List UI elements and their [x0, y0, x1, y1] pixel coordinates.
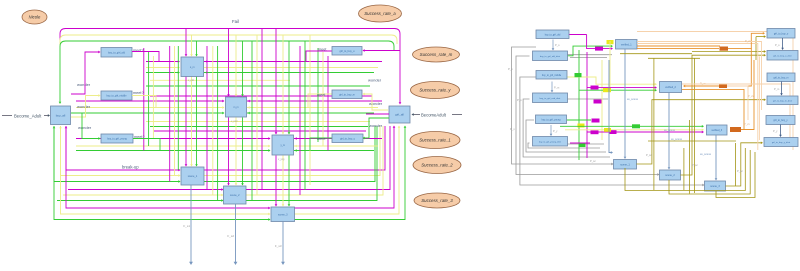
wire magenta col3: [206, 46, 208, 190]
svg-text:P_m: P_m: [774, 87, 779, 91]
block boy_to_girl_old R: [536, 30, 569, 39]
svg-text:girl_to_boy_y_distr: girl_to_boy_y_distr: [772, 141, 791, 144]
block gain orange 2: [719, 84, 727, 89]
wire magenta rowB left: [76, 100, 224, 102]
wire yellow into verified_3: [565, 129, 703, 131]
wire green row3: [54, 182, 270, 220]
node Success_rate_1 ellipse: [410, 132, 460, 149]
svg-text:girl_to_boy_m_distr: girl_to_boy_m_distr: [773, 99, 792, 102]
svg-text:verified_3: verified_3: [711, 129, 722, 132]
wire magenta col6c: [327, 56, 329, 151]
wire gray connector 2: [570, 57, 607, 59]
svg-text:girl_to_boy_y: girl_to_boy_y: [340, 137, 356, 140]
svg-text:Fail: Fail: [232, 19, 239, 24]
wire verified_2 to scene_2: [668, 93, 670, 170]
svg-text:wonder: wonder: [77, 104, 91, 109]
svg-text:break-up: break-up: [122, 165, 139, 170]
wire green colC bottom: [288, 156, 290, 207]
wire yellow col4b: [256, 35, 258, 195]
wire olive loop 5: [669, 150, 750, 194]
wire magenta top bus: [60, 29, 400, 104]
svg-text:boy_to_girl_young: boy_to_girl_young: [107, 138, 127, 141]
wire yellow row3: [61, 176, 271, 215]
wire magenta into g2b_o: [363, 50, 400, 52]
wire pale orange 3: [637, 42, 762, 111]
svg-text:m_m: m_m: [233, 106, 238, 109]
svg-text:wonder: wonder: [369, 101, 383, 106]
wire green rowA left: [146, 72, 179, 74]
wire gray loop 6: [528, 143, 600, 148]
wire yellow row2: [63, 194, 223, 196]
svg-text:girl_to_boy_m: girl_to_boy_m: [773, 76, 788, 79]
wire L1-L2 connector: [552, 40, 554, 51]
wire magenta colB top: [228, 29, 230, 97]
wire magenta colA top: [185, 29, 187, 57]
block gain green 1c: [575, 73, 582, 77]
wire magenta mid row2c: [154, 130, 366, 132]
svg-text:boy_all: boy_all: [56, 113, 66, 117]
wire green colC top: [288, 41, 290, 134]
wire R5-R6 connector: [780, 125, 782, 137]
wire green col4: [251, 41, 253, 200]
wire magenta colC bottom: [275, 156, 277, 207]
wire yellow col6b: [322, 52, 324, 146]
svg-text:v_mid: v_mid: [231, 120, 238, 123]
wire olive vertical b: [735, 143, 737, 186]
wire gray connector 1: [567, 54, 612, 56]
wire yellow colA top: [191, 35, 193, 56]
svg-text:scene_3: scene_3: [278, 213, 288, 216]
block gain green 3: [632, 124, 640, 128]
block boy_to_girl_middle R: [536, 71, 567, 80]
svg-text:Success_rate_m: Success_rate_m: [420, 52, 453, 57]
svg-text:F_s3: F_s3: [275, 244, 282, 248]
wire yellow g2b_m out: [308, 94, 332, 108]
svg-text:boy_to_girl_old: boy_to_girl_old: [545, 33, 561, 36]
wire green b2g_young out: [133, 139, 160, 151]
wire green into verified_3: [560, 125, 703, 127]
svg-text:boy_to_girl_young: boy_to_girl_young: [542, 118, 561, 121]
wire magenta mid vertical: [586, 52, 588, 158]
svg-text:scene_3: scene_3: [710, 185, 720, 188]
node Success_rate_m ellipse: [413, 47, 460, 62]
wire green col3: [217, 46, 219, 200]
wire magenta row2 right: [246, 126, 390, 190]
wire gray loop 4: [523, 99, 610, 157]
block gain magenta 2: [594, 100, 602, 104]
svg-text:P_vx: P_vx: [744, 122, 750, 126]
wire pale orange wrap 2: [682, 84, 790, 145]
wire magenta rowA right: [204, 61, 382, 63]
wire BecomeAdult arrow right: [413, 114, 420, 116]
wire scene_3 down arrow: [282, 222, 284, 263]
wire orange into verified_2 a: [684, 49, 751, 86]
wire green rowB right: [247, 112, 374, 114]
block gain magenta 1: [595, 47, 603, 51]
wire orange v1 out2: [637, 48, 719, 50]
wire pale orange vertical: [758, 56, 760, 140]
svg-text:Success_rate_y: Success_rate_y: [419, 88, 451, 93]
wire green mid row1: [146, 85, 370, 87]
wire yellow wonder boy_all to b2g_middle: [71, 96, 100, 118]
wire magenta rowC left: [76, 138, 270, 140]
wire green colA top: [196, 41, 198, 56]
wire magenta rowB right: [247, 100, 382, 102]
wire yellow mid row0: [150, 79, 290, 81]
wire green g2b_y out: [310, 138, 332, 151]
wire magenta colC top: [275, 29, 277, 135]
block scene_3: [271, 207, 295, 222]
wire magenta girl_all left: [366, 113, 389, 115]
block gain orange 3: [730, 127, 741, 132]
wire green rowB left boy_all out: [71, 112, 224, 114]
block girl_to_boy_m: [332, 90, 362, 99]
wire magenta col4c: [261, 29, 263, 191]
wire magenta stub L1: [569, 34, 587, 36]
wire olive loop 4: [625, 148, 745, 191]
wire olive mid e: [683, 148, 685, 190]
block gain yellow 2: [603, 88, 611, 92]
svg-text:meet?: meet?: [133, 91, 144, 95]
wire olive loop 3: [726, 143, 763, 186]
wire green colB top: [242, 41, 244, 96]
wire olive loop 2b: [692, 51, 765, 53]
wire green row1 right: [204, 126, 375, 182]
svg-text:scene_2: scene_2: [665, 174, 675, 177]
node Nicole ellipse: [22, 10, 47, 24]
block verified_3: [707, 125, 728, 135]
svg-text:Success_rate_a: Success_rate_a: [364, 11, 396, 16]
block gain magenta 1b: [591, 86, 599, 90]
svg-text:meet: meet: [318, 48, 327, 52]
svg-text:v_old: v_old: [188, 79, 194, 82]
block scene_1 R: [614, 160, 637, 170]
wire verified_3 to scene_3: [715, 135, 717, 180]
svg-text:P_sc: P_sc: [692, 163, 698, 167]
wire yellow mid vertical 1: [609, 41, 611, 90]
wire verified_1 to scene_1: [624, 49, 626, 158]
block scene_3 R: [705, 181, 726, 191]
svg-text:P_sc: P_sc: [590, 159, 596, 163]
wire gray loop 5: [526, 120, 606, 152]
wire magenta row2: [68, 189, 223, 191]
svg-text:girl_to_boy_m: girl_to_boy_m: [339, 93, 355, 96]
svg-text:P_y: P_y: [553, 129, 558, 133]
svg-text:Success_rate_3: Success_rate_3: [421, 198, 453, 203]
wire olive mid c: [653, 58, 655, 190]
wire green wonder to b2g_young: [82, 113, 100, 139]
block girl_to_boy_m R: [767, 73, 795, 82]
wire magenta col2: [169, 46, 171, 182]
block boy_to_girl_old_distr: [533, 51, 568, 61]
block girl_to_boy_y R: [766, 116, 795, 125]
svg-text:boy_to_girl_old_distr: boy_to_girl_old_distr: [540, 55, 560, 58]
wire yellow rowA right: [204, 67, 378, 69]
svg-text:meet: meet: [317, 93, 326, 97]
wire pale orange wrap 1: [637, 32, 793, 151]
svg-text:verified_1: verified_1: [621, 43, 632, 46]
svg-text:av_scene: av_scene: [627, 98, 639, 101]
block gain yellow 5: [604, 128, 611, 132]
block boy_to_girl_young_distr: [533, 137, 568, 147]
wire yellow colC top: [282, 35, 284, 134]
block girl_to_boy_o R: [767, 29, 795, 39]
wire magenta rowC right: [294, 138, 382, 140]
wire green colB bottom: [242, 118, 244, 186]
block girl_all U2: [389, 106, 410, 123]
svg-text:girl_to_boy_o: girl_to_boy_o: [774, 32, 789, 35]
wire olive mid a: [620, 53, 692, 55]
block boy_to_girl_young R: [536, 115, 567, 124]
svg-text:girl_to_boy_o_distr: girl_to_boy_o_distr: [773, 54, 792, 57]
wire scene_1 down arrow: [190, 185, 192, 262]
wire scene_2 down arrow: [235, 204, 237, 262]
wire gray connector 3: [568, 98, 609, 100]
wire yellow row1 right: [204, 126, 380, 176]
svg-text:wonder: wonder: [78, 125, 92, 130]
svg-text:P_x: P_x: [517, 98, 522, 102]
wire magenta row3 right: [294, 126, 394, 208]
wire green colA bottom: [196, 77, 198, 167]
block gain yellow 4: [578, 124, 585, 128]
wire yellow colA bottom: [191, 77, 193, 167]
svg-text:girl_all: girl_all: [395, 113, 404, 117]
svg-text:scene_1: scene_1: [620, 163, 630, 166]
svg-text:wonder: wonder: [368, 78, 382, 83]
node Success_rate_y ellipse: [411, 82, 460, 99]
svg-text:BecomeAdult: BecomeAdult: [421, 113, 447, 118]
svg-text:wonder: wonder: [77, 82, 91, 87]
wire green col5b: [304, 41, 306, 190]
block pair_young U5: [272, 135, 294, 155]
svg-text:girl_to_boy_o: girl_to_boy_o: [339, 50, 355, 53]
node Success_rate_a ellipse: [359, 5, 402, 22]
svg-text:P_x: P_x: [508, 67, 513, 71]
wire green row1: [54, 126, 180, 182]
svg-text:Nicole: Nicole: [29, 15, 41, 20]
wire green boy_all bottom: [53, 126, 55, 182]
wire yellow row3 right: [294, 126, 399, 214]
block boy_to_girl_middle: [101, 91, 132, 100]
wire yellow rowC left: [76, 145, 270, 147]
wire green mid row2b: [150, 126, 368, 128]
wire green into verified_1: [568, 46, 613, 56]
wire magenta col5: [299, 46, 301, 195]
wire magenta g2b_o out: [306, 51, 332, 62]
svg-text:av_scene: av_scene: [700, 153, 712, 156]
svg-text:P_o: P_o: [555, 43, 560, 47]
svg-text:Success_rate_1: Success_rate_1: [419, 138, 451, 143]
block pair_old U3: [181, 57, 204, 77]
wire magenta colB bottom: [228, 118, 230, 186]
wire BecomeAdult stub right: [452, 114, 462, 116]
block girl_to_boy_m_distr: [767, 96, 798, 105]
block girl_to_boy_y: [332, 134, 363, 143]
block gain magenta 4: [610, 130, 617, 134]
wire magenta into verified_2: [587, 87, 656, 89]
block gain green 2c: [579, 143, 586, 147]
svg-text:P_sc: P_sc: [646, 153, 652, 157]
svg-text:scene_1: scene_1: [188, 175, 198, 178]
svg-text:boy_to_girl_mid_distr: boy_to_girl_mid_distr: [540, 97, 561, 100]
wire magenta colA bottom: [185, 77, 187, 167]
svg-text:wonder: wonder: [369, 123, 383, 128]
block scene_2 R: [660, 170, 681, 180]
wire yellow rowA left: [146, 67, 179, 69]
wire olive into R1: [756, 36, 765, 38]
block gain orange 1: [720, 47, 729, 51]
wire yellow col1: [152, 56, 154, 139]
block scene_2: [224, 186, 247, 204]
wire yellow col2: [174, 46, 176, 176]
wire magenta boy_all bottom: [65, 126, 67, 170]
wire green into g2b_y: [363, 118, 389, 138]
svg-text:boy_to_girl_old: boy_to_girl_old: [108, 51, 126, 54]
wire pale orange 1: [637, 44, 758, 151]
svg-text:av_scene: av_scene: [664, 129, 676, 132]
wire green into verified_2: [579, 89, 656, 91]
wire magenta into verified_3: [587, 131, 703, 133]
svg-text:o_m: o_m: [190, 66, 195, 69]
wire steel into scene_1 left: [609, 60, 612, 153]
svg-text:Success_rate_2: Success_rate_2: [421, 163, 453, 168]
svg-text:girl_to_boy_y: girl_to_boy_y: [773, 119, 788, 122]
wire gray connector 4: [568, 143, 605, 145]
wire green row3 right: [294, 126, 405, 220]
block gain yellow 1: [607, 40, 614, 44]
wire olive mid b: [648, 57, 700, 59]
wire orange verified_2 out: [682, 89, 744, 129]
svg-text:verified_2: verified_2: [665, 86, 676, 89]
wire magenta rowA left: [146, 61, 179, 63]
wire gray loop 1: [512, 47, 614, 164]
wire yellow rowB right: [247, 107, 378, 109]
svg-text:Become_Adult: Become_Adult: [14, 114, 42, 119]
wire yellow row1: [61, 126, 181, 176]
wire orange verified_3 loop: [741, 60, 754, 130]
wire olive mid f: [689, 120, 691, 194]
wire Become_Adult stub: [2, 115, 12, 117]
svg-text:F_s1: F_s1: [183, 224, 190, 228]
wire green row2 right: [246, 126, 377, 201]
wire magenta b2g_old out: [132, 52, 159, 62]
wire yellow colC bottom: [282, 156, 284, 207]
svg-text:boy_to_girl_young_distr: boy_to_girl_young_distr: [539, 140, 561, 143]
wire yellow rowC right: [294, 145, 378, 147]
wire magenta stub L6: [570, 142, 590, 144]
node Success_rate_3 ellipse: [414, 193, 460, 208]
svg-text:boy_to_girl_middle: boy_to_girl_middle: [542, 74, 562, 77]
block scene_1: [181, 167, 204, 185]
wire green row2: [57, 200, 223, 202]
svg-text:P_sc: P_sc: [737, 169, 743, 173]
block boy_to_girl_old: [101, 48, 132, 58]
wire L3-L4 connector: [551, 82, 553, 93]
wire R1-R2 connector: [782, 38, 784, 50]
wire magenta into verified_1: [587, 35, 612, 49]
wire R3-R4 connector: [781, 82, 783, 96]
svg-text:P_vx: P_vx: [745, 39, 751, 43]
node Success_rate_2 ellipse: [413, 157, 461, 174]
block girl_to_boy_o_distr: [767, 51, 798, 61]
wire magenta break-up row1: [66, 126, 180, 170]
svg-text:y_m: y_m: [280, 144, 285, 147]
block boy_to_girl_young: [101, 134, 133, 143]
wire orange up to girl_to_boy_o: [751, 33, 764, 48]
svg-text:P_y: P_y: [773, 129, 778, 133]
wire magenta wonder boy_all to b2g_old: [71, 52, 100, 94]
svg-text:boy_to_girl_middle: boy_to_girl_middle: [106, 95, 127, 98]
svg-text:meet: meet: [317, 137, 326, 141]
svg-text:P_o: P_o: [775, 43, 780, 47]
wire magenta row3: [66, 170, 270, 208]
wire yellow rowB left: [76, 107, 224, 109]
wire yellow mid row2: [146, 121, 370, 123]
wire green rowC right: [294, 150, 374, 152]
wire magenta mid row1b: [150, 95, 372, 97]
wire magenta row1 right: [204, 126, 385, 170]
wire yellow into verified_2: [567, 77, 656, 84]
wire olive mid d: [694, 58, 696, 193]
block verified_1: [616, 40, 638, 50]
wire L5-L6 connector: [550, 125, 552, 136]
wire olive loop 1: [637, 100, 766, 164]
svg-text:scene_2: scene_2: [230, 194, 240, 197]
wire orange v1 out: [637, 45, 720, 47]
wire green stub L5: [567, 119, 591, 121]
wire yellow boy_all bottom: [60, 126, 62, 176]
wire magenta col1: [143, 48, 145, 151]
svg-text:P_vx: P_vx: [748, 94, 754, 98]
wire green rowC left: [76, 150, 270, 152]
wire green mid vertical: [578, 50, 580, 160]
wire yellow top bus: [60, 35, 397, 45]
wire yellow b2g_middle out: [132, 96, 156, 108]
wire green rowA right: [204, 72, 374, 74]
wire yellow col5c: [309, 35, 311, 185]
svg-text:P_x: P_x: [510, 127, 515, 131]
svg-text:P_m: P_m: [554, 86, 559, 90]
wire pale orange 2: [727, 86, 748, 120]
wire green col1: [148, 52, 150, 146]
wire green top bus: [60, 41, 394, 103]
wire yellow mid vertical 2: [601, 60, 603, 140]
wire olive loop 2: [681, 55, 766, 175]
wire yellow row2 right: [246, 126, 383, 195]
wire yellow colB bottom: [235, 118, 237, 186]
svg-text:P_vx: P_vx: [700, 82, 706, 86]
wire yellow col3: [212, 46, 214, 195]
wire yellow into g2b_m: [363, 94, 388, 110]
block boy_to_girl_mid_distr: [533, 93, 568, 103]
wire olive stub v: [755, 37, 757, 60]
wire Become_Adult arrow: [44, 115, 49, 117]
wire green col2: [177, 46, 179, 170]
svg-text:F_s2: F_s2: [227, 234, 234, 238]
block girl_to_boy_y_distr: [764, 138, 798, 147]
block gain magenta 4b: [591, 130, 599, 134]
block boy_all U1: [51, 106, 71, 125]
wire olive mid g: [648, 140, 736, 142]
block gain magenta 2b: [592, 119, 600, 123]
block girl_to_boy_o: [332, 47, 362, 56]
block verified_2: [660, 82, 682, 93]
svg-text:v_yng: v_yng: [278, 158, 285, 161]
wire gray loop 2: [516, 56, 659, 175]
wire yellow colB top: [235, 35, 237, 96]
wire green col6: [317, 48, 319, 142]
wire gray loop 3: [520, 77, 704, 185]
